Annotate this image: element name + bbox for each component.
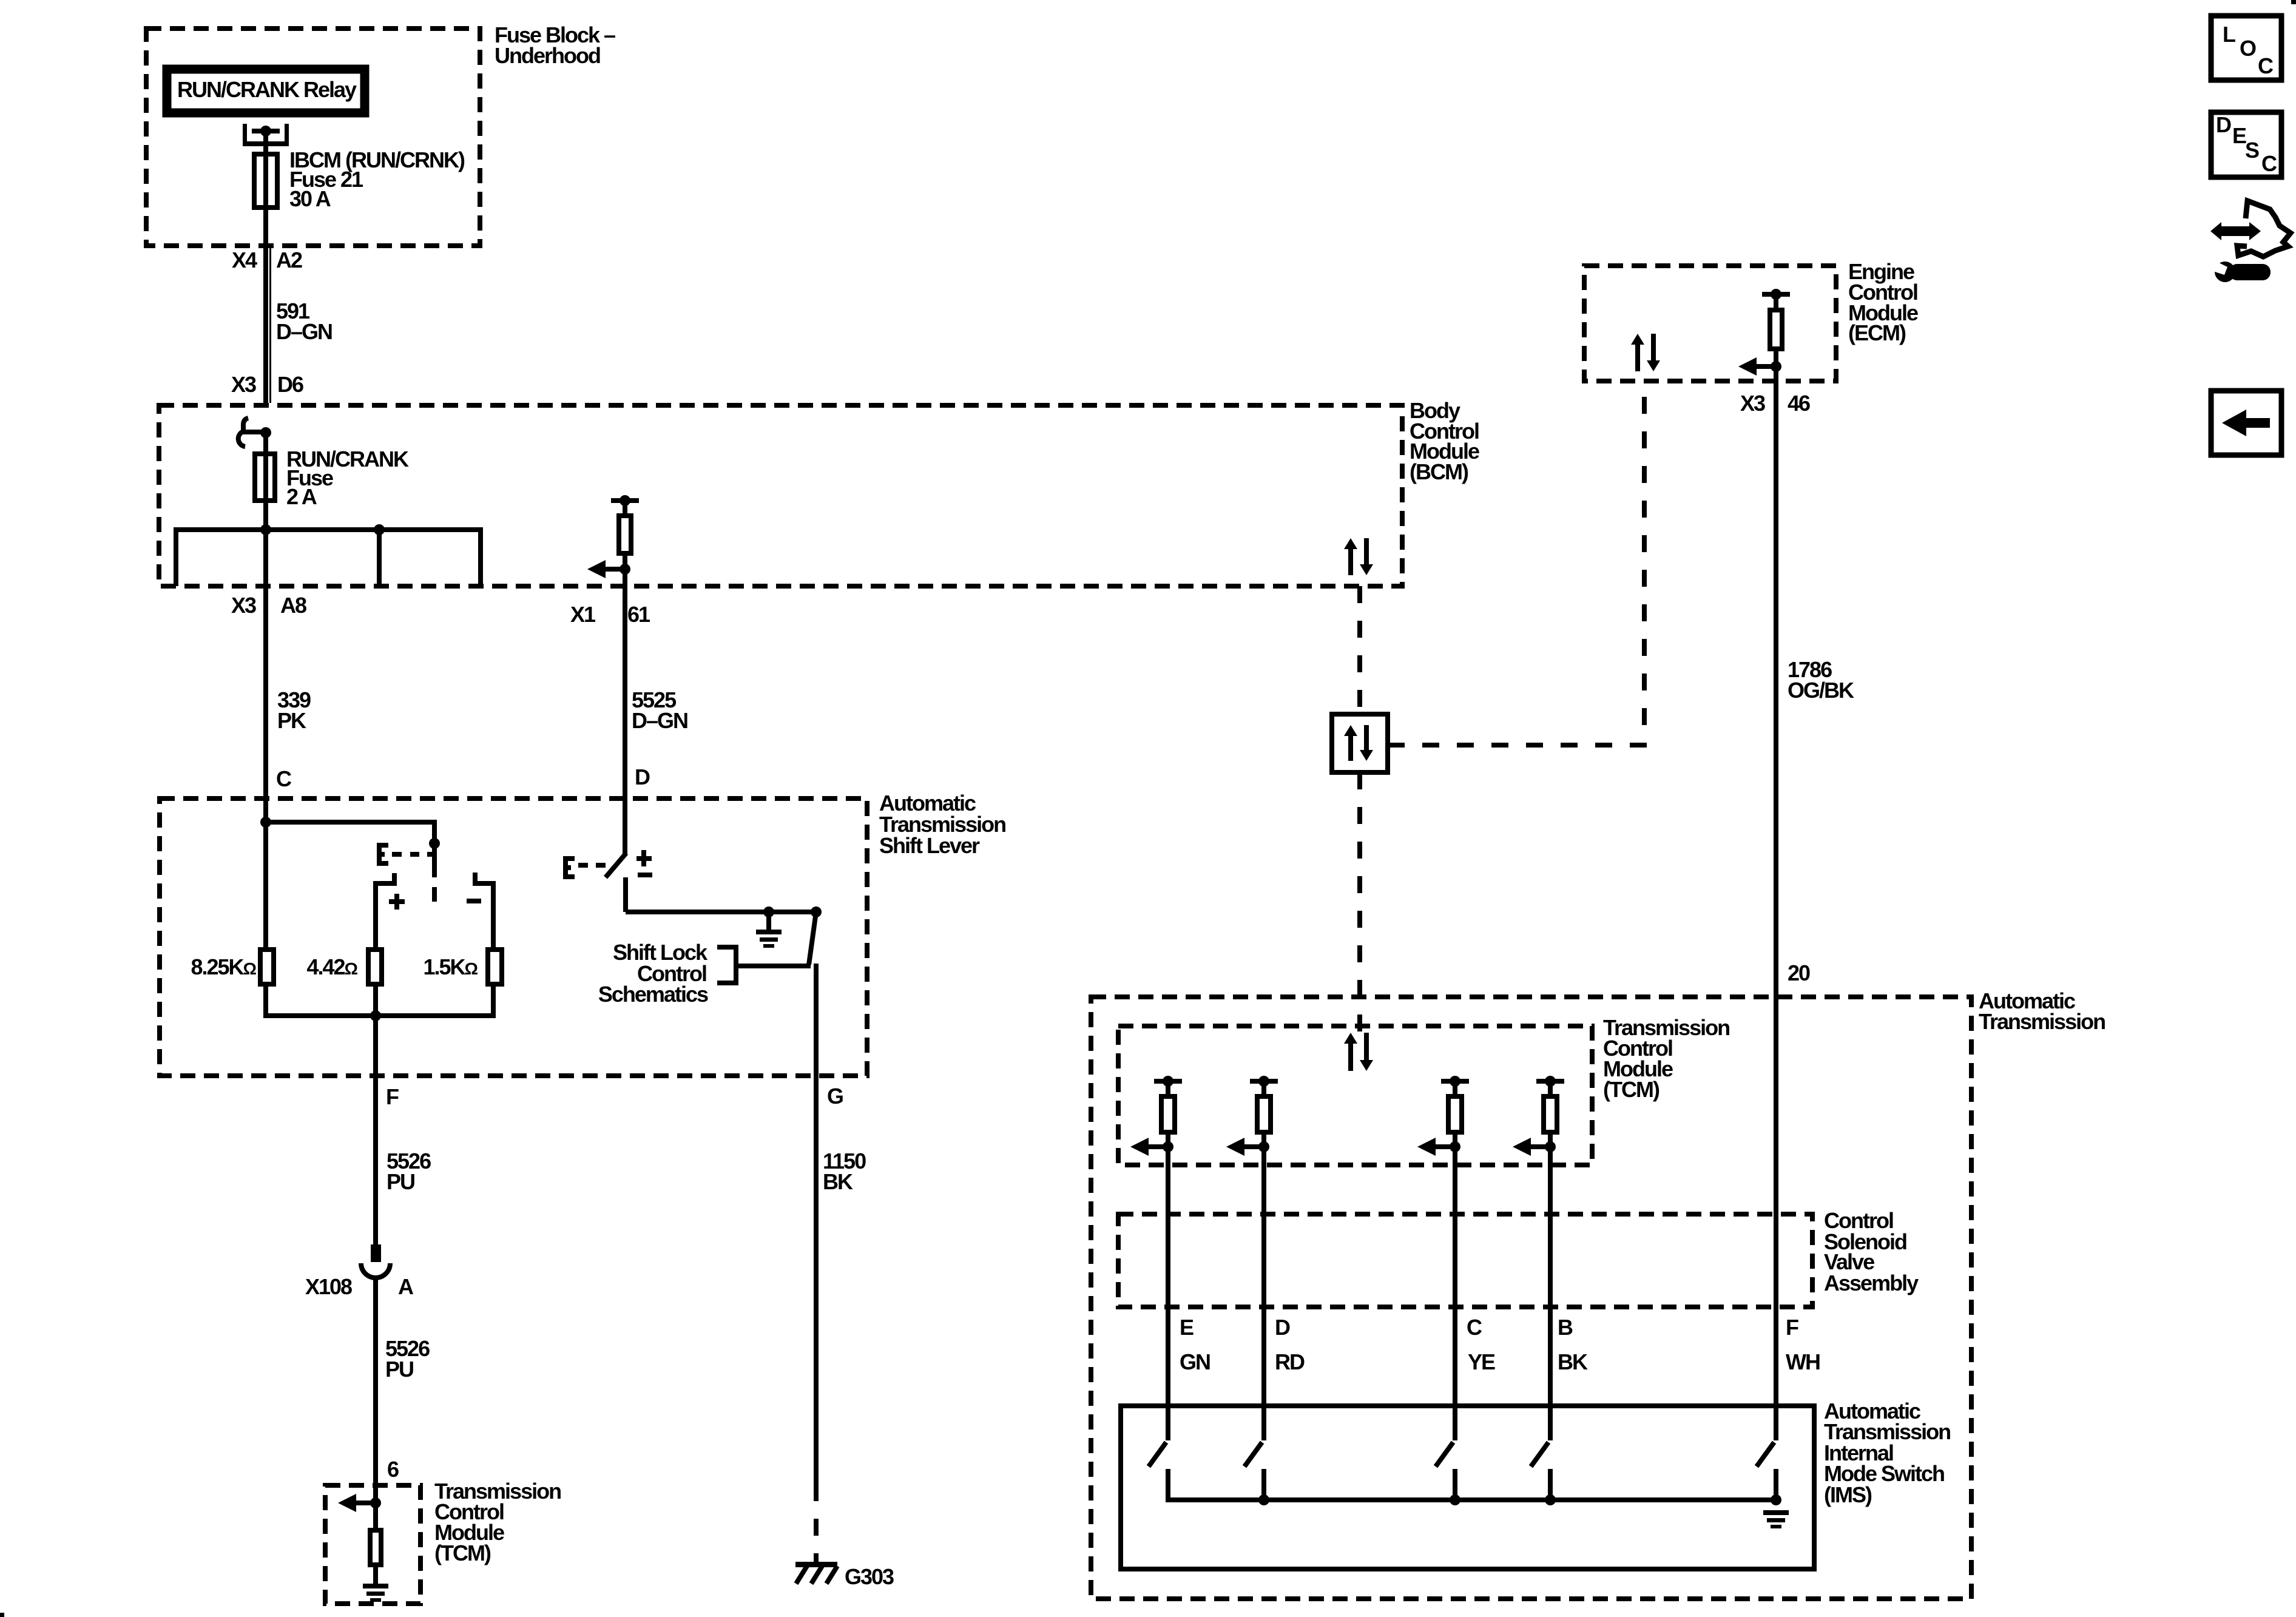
- node: IMS bus junction C: [1450, 1494, 1460, 1505]
- svg-text:C: C: [1467, 1315, 1482, 1340]
- driver: TCM solenoid driver B: [1536, 1079, 1564, 1084]
- svg-text:C: C: [2261, 151, 2277, 176]
- svg-text:A2: A2: [276, 248, 302, 272]
- symbol: BCM serial data arrows: [1344, 538, 1357, 549]
- wire: circuit 5526 PU lower: [373, 1277, 378, 1503]
- svg-text:Schematics: Schematics: [598, 982, 708, 1007]
- svg-text:Shift Lever: Shift Lever: [879, 833, 980, 858]
- switch: IMS contact E: [1149, 1442, 1166, 1467]
- node: ground branch junction: [763, 906, 774, 917]
- switch: IMS contact F: [1757, 1442, 1774, 1467]
- wire: circuit 1786 OG/BK, ECM to IMS: [1774, 383, 1778, 1440]
- arrow: TCM input direction: [338, 1494, 356, 1512]
- svg-text:X3: X3: [1740, 391, 1765, 416]
- svg-text:46: 46: [1788, 391, 1810, 416]
- svg-text:BK: BK: [1558, 1349, 1588, 1374]
- node: selector wiper pivot: [429, 838, 440, 849]
- svg-text:C: C: [276, 766, 292, 791]
- driver: TCM solenoid driver E: [1154, 1079, 1182, 1084]
- plus-minus marks: [641, 850, 646, 866]
- gateway box: serial data connector: [1332, 714, 1388, 772]
- symbol: ECM serial data arrows: [1631, 334, 1644, 345]
- svg-text:YE: YE: [1468, 1349, 1495, 1374]
- icon: LOC button: [2211, 16, 2281, 80]
- mechanical link E bracket (selector): [377, 843, 382, 866]
- svg-text:GN: GN: [1180, 1349, 1210, 1374]
- wire: driver to X1 61: [623, 569, 627, 586]
- wire: BCM internal branch left: [174, 530, 178, 586]
- wire: circuit 339 PK, BCM to shift lever: [263, 586, 268, 825]
- wire: TCM driver E to IMS switch: [1166, 1147, 1170, 1440]
- svg-text:E: E: [1180, 1315, 1194, 1340]
- switch: IMS contact D: [1244, 1442, 1262, 1467]
- svg-text:8.25KΩ: 8.25KΩ: [191, 954, 256, 979]
- svg-text:61: 61: [627, 602, 650, 627]
- svg-text:D: D: [635, 765, 650, 789]
- svg-text:X108: X108: [305, 1274, 352, 1299]
- svg-text:G303: G303: [845, 1564, 894, 1589]
- resistor R2 4.42 ohm: [368, 950, 382, 984]
- svg-text:F: F: [1786, 1315, 1798, 1340]
- svg-text:X4: X4: [232, 248, 257, 272]
- connector tick: double-line on wire 591: [269, 248, 271, 403]
- svg-text:BK: BK: [823, 1169, 853, 1194]
- symbol: AT TCM serial data arrows: [1344, 1033, 1357, 1044]
- svg-text:(TCM): (TCM): [1603, 1077, 1660, 1102]
- component box: Transmission Control Module in AT (dashed): [1118, 1026, 1592, 1165]
- wire: BCM internal branch middle: [377, 530, 382, 586]
- svg-text:A8: A8: [280, 593, 306, 618]
- svg-text:Transmission: Transmission: [1979, 1009, 2105, 1034]
- node: IMS bus junction F: [1771, 1494, 1781, 1505]
- svg-text:(ECM): (ECM): [1848, 320, 1906, 345]
- svg-text:(IMS): (IMS): [1824, 1482, 1872, 1507]
- wire: resistor bottom bus: [263, 1013, 496, 1018]
- switch contact plus side: [392, 873, 397, 881]
- plus sign: [389, 899, 405, 904]
- svg-text:S: S: [2245, 138, 2259, 163]
- wire: serial data BCM to gateway (dashed): [1357, 586, 1362, 714]
- node: pin C junction: [260, 817, 271, 828]
- component box: Automatic Transmission Internal Mode Switch IMS: [1121, 1406, 1814, 1569]
- svg-text:RUN/CRANK Relay: RUN/CRANK Relay: [177, 77, 357, 102]
- node: IMS bus junction B: [1545, 1494, 1556, 1505]
- wire: pin F / circuit 5526 upper: [373, 1016, 378, 1244]
- svg-text:X3: X3: [231, 372, 256, 397]
- wire: gateway to TCM serial data (dashed): [1357, 772, 1362, 1031]
- wire: relay to Fuse 21: [263, 131, 268, 154]
- node: relay output junction: [260, 126, 271, 137]
- resistor R3 1.5K ohm: [491, 947, 496, 950]
- svg-text:RD: RD: [1275, 1349, 1305, 1374]
- switch: selector wiper (dashed moving contact): [432, 848, 437, 877]
- relay K: RUN/CRANK Relay box: [167, 69, 365, 113]
- page corner marks: [2291, 0, 2296, 4]
- bracket: shift lock schematics reference: [717, 945, 738, 950]
- ground: shift lever internal: [756, 930, 782, 934]
- node: bus junction at main wire: [260, 524, 271, 535]
- wire: fuse 2A to X3 A8 pin: [263, 501, 268, 586]
- icon: schematic navigation (double arrow, outline, wrench): [2210, 222, 2261, 240]
- svg-text:20: 20: [1788, 960, 1810, 985]
- node: ECM driver output node: [1771, 361, 1781, 372]
- driver: TCM solenoid driver C: [1441, 1079, 1469, 1084]
- fuse clip hook symbol inside BCM: [243, 418, 248, 431]
- component box: Body Control Module BCM (dashed): [159, 405, 1402, 586]
- svg-text:X1: X1: [570, 602, 596, 627]
- svg-text:Assembly: Assembly: [1824, 1271, 1919, 1295]
- component box: Engine Control Module ECM (dashed): [1584, 266, 1836, 381]
- driver: TCM solenoid driver D: [1250, 1079, 1278, 1084]
- fuse: RUN/CRANK Fuse 2A: [263, 433, 268, 454]
- resistor R1 8.25K ohm: [263, 825, 268, 950]
- node: BCM fuse input junction: [260, 427, 271, 438]
- node: BCM driver output node: [620, 564, 630, 575]
- svg-text:G: G: [827, 1084, 843, 1109]
- svg-text:6: 6: [387, 1457, 399, 1482]
- svg-text:PK: PK: [277, 708, 306, 733]
- node: bus junction middle: [374, 524, 385, 535]
- svg-text:(BCM): (BCM): [1410, 459, 1468, 484]
- svg-text:L: L: [2223, 22, 2235, 47]
- wire: BCM internal bus: [174, 527, 483, 532]
- component box: Automatic Transmission Shift Lever (dashed): [160, 798, 867, 1076]
- wire: TCM driver B to IMS switch: [1548, 1147, 1553, 1440]
- wire: drop to wiper pivot: [432, 822, 437, 843]
- component box: Control Solenoid Valve Assembly (dashed): [1118, 1214, 1812, 1307]
- svg-text:F: F: [386, 1084, 399, 1109]
- switch: IMS contact B: [1531, 1442, 1548, 1467]
- svg-text:D: D: [1275, 1315, 1290, 1340]
- wire: IMS common bus: [1166, 1497, 1776, 1502]
- wire: switch lower contact down and right: [623, 877, 628, 912]
- mechanical link E bracket (shift lock): [563, 856, 568, 879]
- svg-text:PU: PU: [385, 1357, 413, 1382]
- switch: shift lock position switch: [606, 853, 626, 877]
- wire: C node to selector wiper: [266, 820, 437, 825]
- icon: DESC button: [2211, 112, 2281, 177]
- node: IMS bus junction D: [1258, 1494, 1269, 1505]
- svg-text:D–GN: D–GN: [276, 319, 332, 344]
- icon: back arrow button: [2211, 391, 2281, 455]
- ground G303 (chassis): [795, 1562, 837, 1567]
- wire: bracket to switch blade: [738, 964, 811, 968]
- svg-text:O: O: [2240, 36, 2256, 61]
- fuse F21: IBCM (RUN/CRNK) Fuse 21 30A: [263, 154, 268, 208]
- svg-text:D–GN: D–GN: [632, 708, 687, 733]
- node: pin G branch junction: [811, 906, 822, 917]
- node: TCM input node: [370, 1497, 381, 1508]
- wire: driver to X3 46: [1774, 366, 1778, 383]
- svg-text:(TCM): (TCM): [434, 1541, 491, 1565]
- wire: circuit 5525 D-GN, BCM to shift lever: [623, 586, 627, 856]
- component box: Fuse Block - Underhood (dashed): [146, 29, 480, 246]
- svg-text:D: D: [2216, 112, 2231, 137]
- mechanical dashed link: [578, 863, 588, 868]
- node: bus junction to pin F: [370, 1010, 381, 1021]
- wire: to internal ground: [766, 912, 771, 930]
- switch blade to pin G: [809, 912, 816, 965]
- ground: IMS case ground: [1763, 1510, 1789, 1515]
- arrow: BCM output direction: [587, 560, 606, 578]
- ground: TCM internal: [363, 1584, 388, 1588]
- wire: 1150 BK dashed to G303: [814, 1484, 819, 1564]
- svg-text:D6: D6: [277, 372, 303, 397]
- svg-text:E: E: [2232, 123, 2246, 148]
- svg-text:X3: X3: [231, 593, 256, 618]
- switch contact minus side: [473, 873, 478, 881]
- symbol: gateway serial data arrows: [1344, 725, 1357, 736]
- svg-text:C: C: [2258, 53, 2274, 78]
- switch: IMS contact C: [1436, 1442, 1453, 1467]
- wire: gateway to ECM serial data (dashed): [1388, 383, 1644, 745]
- wire: Fuse 21 to BCM (circuit 591): [263, 208, 268, 405]
- minus sign: [467, 899, 481, 903]
- connector X108 pin A (in-line): [371, 1244, 381, 1262]
- svg-text:30 A: 30 A: [289, 186, 331, 211]
- mechanical dashed link to wiper: [392, 852, 402, 857]
- component box: Automatic Transmission (dashed): [1091, 997, 1971, 1599]
- svg-text:4.42Ω: 4.42Ω: [306, 954, 357, 979]
- component box: Transmission Control Module TCM (dashed): [325, 1485, 420, 1604]
- svg-text:1.5KΩ: 1.5KΩ: [424, 954, 478, 979]
- wire: TCM driver D to IMS switch: [1261, 1147, 1266, 1440]
- relay output pin bracket: [243, 124, 247, 146]
- svg-text:WH: WH: [1786, 1349, 1820, 1374]
- driver: ECM output driver at X3 46: [1762, 292, 1790, 297]
- svg-text:A: A: [398, 1274, 414, 1299]
- wire: TCM driver C to IMS switch: [1453, 1147, 1457, 1440]
- wire: BCM internal branch right: [478, 530, 483, 586]
- svg-text:Underhood: Underhood: [495, 43, 600, 68]
- resistor: TCM internal pull: [373, 1503, 378, 1530]
- svg-text:OG/BK: OG/BK: [1788, 678, 1854, 703]
- svg-text:B: B: [1558, 1315, 1573, 1340]
- svg-text:PU: PU: [387, 1169, 414, 1194]
- svg-text:2 A: 2 A: [286, 484, 317, 509]
- wire: pin G / circuit 1150 BK: [814, 964, 819, 1484]
- driver: BCM output driver at X1 61: [611, 498, 639, 503]
